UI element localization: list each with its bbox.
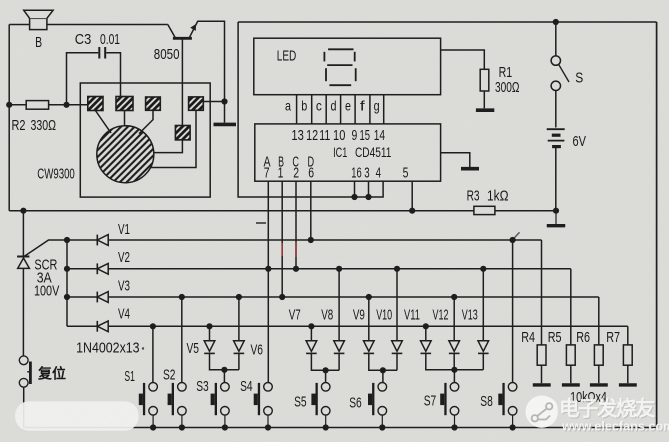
wire S8 drop: [512, 240, 514, 382]
node V9 on V3: [366, 294, 372, 300]
labels pins 16 3 4 5: [351, 166, 408, 182]
wire pin 5 down: [411, 181, 413, 211]
node bus0 SCR junction: [20, 208, 26, 214]
ground below R1: [476, 108, 494, 112]
switch S: [551, 22, 569, 128]
wire bus0 ground bus: [9, 210, 556, 212]
pushbutton S4: [254, 383, 273, 428]
wire to S5: [325, 370, 327, 382]
node V11 on V4: [423, 323, 429, 329]
diode V9: [364, 297, 398, 370]
node S1 bottom: [150, 424, 156, 430]
pushbutton S2: [168, 383, 187, 428]
node V9V10 join: [380, 367, 386, 373]
speaker B: [24, 10, 53, 29]
node S6 bottom: [379, 424, 385, 430]
ground (transistor collector node): [214, 123, 237, 127]
node gate bus V2: [64, 266, 70, 272]
node R2-C3 junction: [63, 102, 69, 108]
labels pins 7 1 2 6: [264, 166, 314, 182]
pushbutton S8: [498, 383, 517, 428]
node V7V8 join: [323, 367, 329, 373]
node V13 on V2: [480, 266, 486, 272]
node S3 bottom: [222, 424, 228, 430]
node S8 on V1: [509, 237, 515, 243]
wire VCC left drop to pins 16 3 4: [238, 22, 383, 197]
wire gate bus vertical: [66, 240, 68, 326]
transistor Q1 8050: [168, 21, 225, 125]
node S5 bottom: [323, 424, 329, 430]
wires segments a-g: [297, 95, 384, 124]
wire red-tinted scan artifact on C pin: [295, 242, 297, 257]
scan artifact dash: [256, 222, 266, 224]
node S1 on V4: [150, 323, 156, 329]
node pin3: [365, 194, 371, 200]
scan artifact tick above S8 node: [514, 232, 520, 238]
node D pin on V1: [308, 237, 314, 243]
wire to S3: [223, 370, 225, 383]
node B pin on V3: [279, 294, 285, 300]
diode V13: [478, 269, 489, 370]
labels A B C D: [263, 154, 314, 170]
wire LED box to R1: [441, 50, 485, 69]
diode V11: [421, 326, 484, 370]
node V6 on V3: [236, 294, 242, 300]
pad 2: [116, 97, 133, 111]
pushbutton S1: [139, 383, 158, 428]
wire left vertical rail: [8, 25, 10, 211]
resistor R6: [590, 297, 608, 385]
node S8 bottom: [509, 424, 515, 430]
wire pin A down to S4: [267, 181, 269, 382]
pad 3: [146, 97, 161, 110]
diode V8: [334, 269, 345, 371]
diode V10: [392, 269, 403, 371]
diode V3: [67, 292, 599, 303]
resistor R5: [562, 269, 580, 385]
resistor R7: [619, 326, 637, 385]
node S2 bottom: [179, 424, 185, 430]
wire IC right to ground: [441, 153, 470, 167]
wire VCC right rail: [656, 22, 658, 428]
node gate bus V3: [64, 294, 70, 300]
pad 1: [88, 97, 103, 111]
pushbutton S6: [368, 383, 387, 428]
wire bottom bus: [24, 427, 657, 429]
wire red-tinted scan artifact on B pin: [281, 243, 283, 256]
pad 5: [175, 126, 190, 140]
node left rail R2 junction: [6, 102, 12, 108]
diode V1: [67, 235, 542, 246]
node V12 on V3: [451, 294, 457, 300]
watermark logo circle: [526, 396, 558, 428]
resistor R3: [474, 206, 495, 214]
labels pins 13 12 11 10 9 15 14: [291, 128, 385, 144]
node pin5 on bus0: [409, 208, 415, 214]
battery 6V: [547, 129, 565, 211]
wire to S7: [453, 370, 455, 383]
diode V2: [67, 263, 571, 274]
labels a b c d e f g: [285, 98, 380, 114]
wire speaker-emitter bus: [9, 24, 168, 26]
resistor R4: [533, 240, 551, 385]
wire S2 drop: [181, 297, 183, 382]
wire pad5 to blob: [154, 140, 183, 153]
diode V4: [67, 321, 628, 332]
wire pad1 to blob: [95, 111, 111, 134]
pushbutton S7: [440, 383, 459, 428]
pad 4: [189, 97, 204, 110]
node C pin on V2: [293, 266, 299, 272]
node S2 on V3: [179, 294, 185, 300]
resistor R1: [480, 69, 489, 91]
node pin16: [351, 194, 357, 200]
wire pad3 to blob: [139, 110, 153, 133]
wire pin C down: [295, 181, 297, 269]
wire S1 drop: [152, 326, 154, 382]
wire pin B down: [281, 181, 283, 297]
node V10 on V2: [394, 266, 400, 272]
watermark capsule bottom-left: [15, 401, 138, 430]
pushbutton S5: [311, 383, 330, 428]
chip blob circle CW9300: [97, 126, 154, 183]
pushbutton reset: [19, 356, 31, 428]
node VCC battery junction: [553, 19, 559, 25]
node bus0 battery junction: [553, 208, 559, 214]
diode V5: [204, 326, 239, 370]
diode V7: [306, 326, 339, 370]
wire pad4 to blob: [151, 110, 197, 167]
node V8 on V2: [336, 266, 342, 272]
wire pin D down: [310, 181, 312, 240]
scan artifact dot after 1N4002x13: [142, 347, 144, 349]
node V11V12V13 join: [451, 367, 457, 373]
capacitor C3: [67, 47, 121, 105]
wire pad2 to blob: [124, 111, 126, 126]
resistor R2: [9, 101, 88, 110]
wire VCC top bus: [238, 21, 656, 23]
node S7 bottom: [451, 424, 457, 430]
pushbutton S3: [211, 383, 230, 428]
op IC1 CD4511 box: [255, 124, 441, 181]
wire pad4 to collector node: [203, 101, 224, 103]
node S4/A on V2: [265, 266, 271, 272]
LED display box: [254, 38, 441, 94]
diode V12: [449, 297, 460, 370]
node V5 on V4: [206, 323, 212, 329]
node SCR gate bus top: [64, 237, 70, 243]
thyristor SCR: [17, 211, 67, 356]
ground below bus0: [547, 211, 565, 226]
diode V6: [234, 297, 245, 370]
wire to S6: [382, 370, 384, 382]
node S4 bottom: [265, 424, 271, 430]
ground right of IC: [461, 167, 479, 171]
node V5V6 join: [221, 367, 227, 373]
node collector junction: [221, 98, 227, 104]
7-segment digit: [324, 49, 355, 85]
IC CW9300 box: [80, 83, 210, 197]
node V7 on V4: [308, 323, 314, 329]
